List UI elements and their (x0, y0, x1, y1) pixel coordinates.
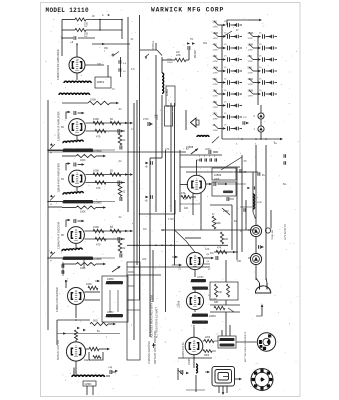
svg-text:+1q: +1q (108, 366, 113, 369)
svg-text:12AT6 DET AF: 12AT6 DET AF (182, 342, 185, 358)
svg-text:470: 470 (96, 186, 101, 190)
svg-text:100K: 100K (90, 98, 96, 102)
svg-text:100K: 100K (213, 32, 219, 35)
svg-text:10862: 10862 (166, 88, 169, 96)
svg-text:100K: 100K (93, 117, 99, 121)
svg-text:1M: 1M (210, 252, 213, 255)
svg-text:22K: 22K (224, 238, 229, 241)
svg-text:10866: 10866 (94, 257, 102, 261)
svg-text:+: + (50, 151, 52, 155)
svg-text:56K: 56K (213, 21, 218, 24)
svg-text:12BE6 CONVERTER: 12BE6 CONVERTER (55, 287, 59, 312)
svg-text:12BA6 FM IF AMPLIFIER: 12BA6 FM IF AMPLIFIER (57, 111, 61, 141)
svg-text:B+: B+ (97, 330, 101, 333)
svg-text:100K: 100K (211, 298, 217, 301)
svg-text:10866: 10866 (107, 278, 114, 281)
svg-text:TO: TO (190, 38, 193, 41)
svg-text:2.2M: 2.2M (223, 210, 229, 213)
svg-text:270K: 270K (143, 118, 149, 121)
svg-text:10869: 10869 (214, 173, 222, 177)
svg-text:1.5M: 1.5M (168, 218, 174, 221)
svg-text:12865: 12865 (197, 277, 204, 279)
svg-text:CGT: CGT (84, 358, 90, 362)
svg-text:12BA6 FM IF AMPLIFIER: 12BA6 FM IF AMPLIFIER (57, 163, 61, 193)
svg-text:100K: 100K (93, 169, 99, 173)
svg-text:100K: 100K (80, 159, 86, 162)
svg-text:150K: 150K (248, 90, 254, 93)
svg-text:1M: 1M (143, 228, 146, 231)
svg-text:12K: 12K (205, 248, 210, 251)
svg-text:10865: 10865 (94, 201, 102, 205)
svg-text:100K: 100K (80, 211, 86, 214)
svg-text:47K: 47K (217, 247, 222, 250)
svg-text:10863: 10863 (209, 315, 216, 318)
svg-text:+B: +B (145, 167, 148, 169)
svg-text:CHASSIS GROUND: CHASSIS GROUND (148, 341, 151, 364)
svg-text:56K: 56K (213, 78, 218, 81)
svg-text:47K: 47K (165, 148, 170, 151)
svg-text:301: 301 (203, 42, 208, 45)
svg-text:50C5 AF OUTPUT: 50C5 AF OUTPUT (57, 339, 60, 360)
svg-text:10K: 10K (184, 207, 189, 210)
svg-text:1M: 1M (206, 254, 209, 256)
svg-text:220K: 220K (214, 178, 220, 181)
svg-text:OZRO: OZRO (85, 383, 92, 386)
svg-text:*: * (257, 196, 258, 200)
svg-text:100K: 100K (80, 267, 86, 270)
svg-text:56K: 56K (248, 67, 253, 70)
svg-text:18K: 18K (214, 301, 219, 304)
svg-text:120: 120 (213, 55, 218, 58)
svg-text:+: + (50, 203, 52, 207)
svg-text:10K: 10K (218, 292, 223, 294)
svg-text:150K: 150K (157, 114, 159, 120)
svg-text:470K: 470K (257, 202, 263, 204)
svg-text:BATTERY ON FM POSITION: BATTERY ON FM POSITION (154, 331, 157, 364)
svg-text:100K: 100K (215, 222, 221, 225)
svg-text:3000: 3000 (204, 355, 210, 357)
svg-text:FM ANT: FM ANT (194, 49, 197, 58)
svg-text:160: 160 (237, 260, 242, 263)
svg-text:.01: .01 (130, 38, 134, 41)
svg-text:270: 270 (213, 113, 218, 116)
svg-text:WARWICK MFG CORP: WARWICK MFG CORP (151, 7, 224, 14)
svg-text:+B: +B (145, 201, 148, 203)
svg-text:10864: 10864 (94, 149, 102, 153)
svg-text:.05: .05 (243, 160, 247, 163)
svg-text:10861: 10861 (97, 80, 105, 84)
svg-text:10862: 10862 (167, 62, 173, 64)
svg-text:DIPOLE: DIPOLE (152, 40, 155, 49)
svg-text:BOTTOM VIEW OF SOCKETS: BOTTOM VIEW OF SOCKETS (245, 331, 247, 362)
svg-text:100K: 100K (248, 44, 254, 47)
svg-text:100K: 100K (86, 283, 92, 286)
svg-text:11475: 11475 (180, 263, 182, 270)
svg-text:+: + (50, 259, 52, 263)
svg-text:10868: 10868 (186, 145, 194, 149)
svg-text:270: 270 (248, 55, 253, 58)
svg-text:10K: 10K (213, 90, 218, 93)
svg-text:60~: 60~ (283, 184, 288, 186)
svg-text:+3: +3 (70, 40, 74, 44)
svg-text:MODEL 12110: MODEL 12110 (46, 7, 90, 14)
svg-text:22K: 22K (142, 258, 147, 261)
svg-text:470: 470 (96, 135, 101, 139)
svg-text:12BA6 FM IF DISCRIM: 12BA6 FM IF DISCRIM (57, 222, 61, 249)
svg-text:10867: 10867 (107, 311, 114, 314)
svg-text:6.8: 6.8 (131, 68, 135, 71)
svg-text:12BA6 FM RF AMPLIFIER: 12BA6 FM RF AMPLIFIER (56, 49, 60, 80)
svg-text:3.3: 3.3 (131, 128, 135, 131)
svg-text:12BA6: 12BA6 (178, 300, 181, 308)
svg-text:47K: 47K (181, 192, 186, 195)
svg-text:47K: 47K (213, 44, 218, 47)
svg-text:117V AC 60 CY: 117V AC 60 CY (284, 224, 287, 240)
svg-text:33K: 33K (213, 101, 218, 104)
svg-text:220K: 220K (205, 148, 211, 151)
svg-text:470K: 470K (248, 32, 254, 35)
svg-text:560: 560 (93, 319, 98, 323)
svg-text:330: 330 (97, 63, 102, 66)
svg-text:.02: .02 (118, 108, 122, 111)
svg-text:1000: 1000 (248, 78, 254, 81)
svg-text:.02: .02 (118, 160, 122, 163)
svg-text:100K: 100K (93, 225, 99, 229)
svg-text:.02: .02 (118, 216, 122, 219)
svg-text:100K: 100K (213, 67, 219, 70)
svg-text:470: 470 (96, 243, 101, 247)
svg-text:10065: 10065 (189, 358, 191, 365)
svg-text:TONE SW: TONE SW (272, 229, 274, 240)
